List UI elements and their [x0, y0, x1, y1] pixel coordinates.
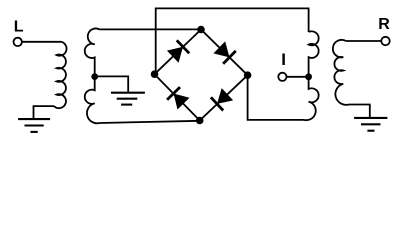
inductor L4 (right transformer secondary) — [333, 40, 349, 105]
wire L3 bottom to bridge right node — [248, 75, 304, 120]
bridge edge left-top — [155, 30, 202, 75]
svg-text:R: R — [378, 16, 390, 33]
inductor L2 upper half (left transformer secondary) — [85, 28, 100, 76]
wire coil bottom to ground — [34, 106, 55, 118]
bridge edge left-bottom — [155, 74, 200, 120]
wire bottom rail to bridge bottom node — [100, 121, 200, 123]
terminal L — [14, 38, 22, 46]
node center tap L3 — [305, 73, 312, 80]
diode D3 (bottom node to left node) — [167, 87, 190, 110]
bridge edge bottom-right — [200, 75, 248, 120]
node bridge right — [244, 71, 252, 79]
node bridge left — [151, 70, 159, 78]
node bridge bottom — [196, 117, 204, 125]
wire bridge left node up and over (top loop) — [156, 8, 309, 74]
inductor L2 lower half — [85, 77, 100, 124]
node center tap L2 — [91, 73, 98, 80]
wire L terminal to coil — [22, 41, 61, 43]
svg-text:I: I — [281, 50, 286, 69]
diode D1 (left node to top node) — [167, 40, 190, 63]
inductor L3 lower half — [304, 77, 319, 120]
wire I terminal to center tap — [287, 76, 309, 78]
ground (middle) — [111, 93, 145, 105]
node bridge top — [197, 26, 205, 34]
ground (left) — [18, 119, 50, 132]
diode D4 (right node to bottom node) — [211, 88, 234, 111]
svg-text:L: L — [14, 19, 24, 36]
wire rail to bridge top node — [100, 28, 202, 30]
ground (right) — [354, 118, 387, 131]
wire R terminal to coil — [346, 40, 381, 42]
bridge edge top-right — [201, 30, 248, 76]
terminal R — [381, 37, 389, 45]
wire coil bottom to right ground — [349, 105, 370, 118]
inductor L1 (left transformer primary) — [54, 42, 67, 108]
terminal I — [278, 73, 286, 81]
wire center tap to middle ground — [95, 76, 129, 91]
inductor L3 upper half (right transformer primary) — [309, 31, 319, 77]
diode D2 (top node to right node) — [213, 41, 236, 64]
